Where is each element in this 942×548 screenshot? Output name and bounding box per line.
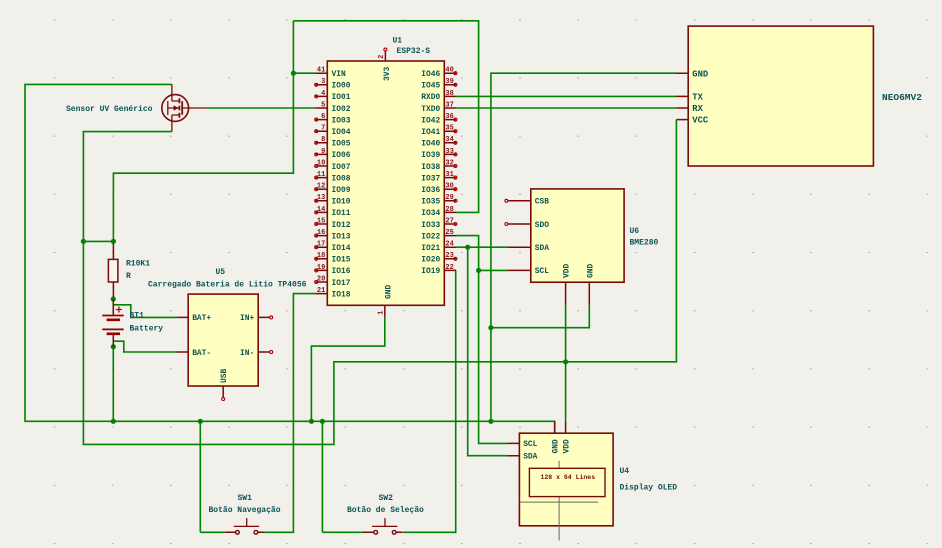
svg-text:IO35: IO35 xyxy=(421,198,440,207)
svg-text:25: 25 xyxy=(445,229,453,237)
svg-text:NEO6MV2: NEO6MV2 xyxy=(882,92,922,103)
svg-text:16: 16 xyxy=(317,229,325,237)
svg-text:IO38: IO38 xyxy=(421,163,440,172)
svg-text:IO01: IO01 xyxy=(332,93,351,102)
svg-text:IO03: IO03 xyxy=(332,116,351,125)
svg-text:RX: RX xyxy=(692,104,703,114)
svg-text:4: 4 xyxy=(321,90,325,98)
svg-text:SCL: SCL xyxy=(535,267,549,276)
svg-text:IO33: IO33 xyxy=(421,221,440,230)
svg-text:Botão de Seleção: Botão de Seleção xyxy=(347,506,424,515)
svg-text:36: 36 xyxy=(445,113,453,121)
svg-text:6: 6 xyxy=(321,113,325,121)
svg-text:12: 12 xyxy=(317,183,325,191)
svg-text:IN+: IN+ xyxy=(240,314,254,323)
svg-text:SDA: SDA xyxy=(535,244,549,253)
svg-text:35: 35 xyxy=(445,125,453,133)
svg-text:BAT+: BAT+ xyxy=(192,314,211,323)
svg-text:IO05: IO05 xyxy=(332,140,351,149)
svg-text:IO34: IO34 xyxy=(421,209,440,218)
svg-text:GND: GND xyxy=(552,439,561,453)
svg-text:10: 10 xyxy=(317,159,325,167)
svg-text:IO06: IO06 xyxy=(332,151,351,160)
svg-text:U1: U1 xyxy=(393,37,403,46)
svg-text:27: 27 xyxy=(445,217,453,225)
svg-text:Battery: Battery xyxy=(130,325,164,334)
svg-text:BAT-: BAT- xyxy=(192,349,211,358)
svg-text:3V3: 3V3 xyxy=(383,67,392,81)
svg-text:24: 24 xyxy=(445,241,453,249)
svg-text:Display OLED: Display OLED xyxy=(620,484,678,493)
svg-text:3: 3 xyxy=(321,78,325,86)
svg-text:IO41: IO41 xyxy=(421,128,440,137)
svg-text:31: 31 xyxy=(445,171,453,179)
svg-text:IO00: IO00 xyxy=(332,82,351,91)
svg-text:IO13: IO13 xyxy=(332,232,351,241)
svg-text:14: 14 xyxy=(317,206,325,214)
svg-text:Carregado Bateria de Litio TP4: Carregado Bateria de Litio TP4056 xyxy=(148,281,307,290)
svg-text:BT1: BT1 xyxy=(130,312,145,321)
svg-text:IO07: IO07 xyxy=(332,163,351,172)
svg-text:IO09: IO09 xyxy=(332,186,351,195)
svg-text:IO16: IO16 xyxy=(332,267,351,276)
svg-text:9: 9 xyxy=(321,148,325,156)
svg-text:22: 22 xyxy=(445,264,453,272)
svg-text:7: 7 xyxy=(321,125,325,133)
svg-text:TX: TX xyxy=(692,93,703,103)
svg-text:37: 37 xyxy=(445,101,453,109)
svg-text:U6: U6 xyxy=(630,227,640,236)
svg-text:IO11: IO11 xyxy=(332,209,351,218)
svg-text:USB: USB xyxy=(220,369,229,383)
svg-text:128 x 64 Lines: 128 x 64 Lines xyxy=(541,474,596,481)
svg-text:1: 1 xyxy=(378,311,386,315)
svg-text:IO20: IO20 xyxy=(421,256,440,265)
svg-text:IO15: IO15 xyxy=(332,256,351,265)
svg-text:RXD0: RXD0 xyxy=(421,93,440,102)
svg-text:21: 21 xyxy=(317,287,325,295)
svg-text:VIN: VIN xyxy=(332,70,346,79)
svg-text:5: 5 xyxy=(321,101,325,109)
svg-text:IO08: IO08 xyxy=(332,174,351,183)
svg-text:38: 38 xyxy=(445,90,453,98)
svg-text:17: 17 xyxy=(317,241,325,249)
svg-text:20: 20 xyxy=(317,275,325,283)
svg-text:R: R xyxy=(126,272,131,281)
svg-text:CSB: CSB xyxy=(535,198,549,207)
svg-text:IO39: IO39 xyxy=(421,151,440,160)
svg-text:BME280: BME280 xyxy=(630,239,659,248)
svg-text:IO21: IO21 xyxy=(421,244,440,253)
svg-text:IO18: IO18 xyxy=(332,290,351,299)
svg-text:ESP32-S: ESP32-S xyxy=(397,47,431,56)
svg-text:19: 19 xyxy=(317,264,325,272)
svg-text:GND: GND xyxy=(586,264,595,278)
svg-text:8: 8 xyxy=(321,136,325,144)
svg-text:SW2: SW2 xyxy=(379,494,394,503)
svg-text:SDO: SDO xyxy=(535,221,549,230)
svg-text:IO37: IO37 xyxy=(421,174,440,183)
svg-text:11: 11 xyxy=(317,171,325,179)
svg-text:IO17: IO17 xyxy=(332,279,351,288)
svg-text:32: 32 xyxy=(445,159,453,167)
svg-text:TXD0: TXD0 xyxy=(421,105,440,114)
svg-text:IO36: IO36 xyxy=(421,186,440,195)
svg-text:2: 2 xyxy=(378,55,386,59)
svg-text:Sensor UV Genérico: Sensor UV Genérico xyxy=(66,105,153,114)
svg-text:30: 30 xyxy=(445,183,453,191)
svg-text:R10K1: R10K1 xyxy=(126,260,150,269)
svg-text:28: 28 xyxy=(445,206,453,214)
svg-text:13: 13 xyxy=(317,194,325,202)
svg-text:IO19: IO19 xyxy=(421,267,440,276)
svg-text:IO14: IO14 xyxy=(332,244,351,253)
svg-text:IO45: IO45 xyxy=(421,82,440,91)
svg-text:VDD: VDD xyxy=(563,439,572,453)
svg-text:IO10: IO10 xyxy=(332,198,351,207)
svg-text:Botão Navegação: Botão Navegação xyxy=(209,506,281,515)
svg-text:18: 18 xyxy=(317,252,325,260)
svg-text:GND: GND xyxy=(692,69,708,79)
svg-text:39: 39 xyxy=(445,78,453,86)
svg-text:IO12: IO12 xyxy=(332,221,351,230)
svg-text:SCL: SCL xyxy=(523,440,537,449)
svg-text:U4: U4 xyxy=(620,467,630,476)
svg-text:40: 40 xyxy=(445,67,453,75)
svg-text:IN-: IN- xyxy=(240,349,254,358)
svg-text:VCC: VCC xyxy=(692,116,709,126)
svg-text:IO46: IO46 xyxy=(421,70,440,79)
svg-text:34: 34 xyxy=(445,136,453,144)
svg-text:15: 15 xyxy=(317,217,325,225)
svg-text:41: 41 xyxy=(317,67,325,75)
svg-text:GND: GND xyxy=(385,285,394,299)
svg-text:23: 23 xyxy=(445,252,453,260)
svg-text:IO40: IO40 xyxy=(421,140,440,149)
svg-text:SW1: SW1 xyxy=(238,494,253,503)
svg-text:SDA: SDA xyxy=(523,453,537,462)
svg-text:33: 33 xyxy=(445,148,453,156)
svg-text:29: 29 xyxy=(445,194,453,202)
svg-text:U5: U5 xyxy=(216,268,226,277)
svg-text:IO22: IO22 xyxy=(421,232,440,241)
svg-text:VDD: VDD xyxy=(563,264,572,278)
svg-text:IO04: IO04 xyxy=(332,128,351,137)
svg-text:IO42: IO42 xyxy=(421,116,440,125)
svg-text:IO02: IO02 xyxy=(332,105,351,114)
